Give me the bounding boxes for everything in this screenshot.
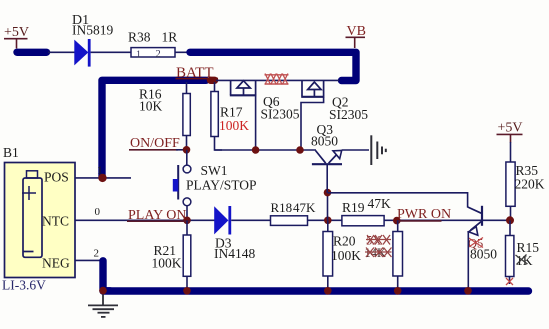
svg-text:2: 2	[94, 248, 100, 260]
node base link	[324, 189, 332, 197]
net label BATT	[176, 65, 219, 81]
resistor R38 1R	[128, 30, 177, 61]
net label PWR ON	[397, 207, 452, 222]
svg-text:NEG: NEG	[42, 256, 70, 271]
svg-text:PWR ON: PWR ON	[397, 207, 451, 222]
svg-text:IN4148: IN4148	[214, 246, 255, 261]
wire R38 to VB run	[175, 51, 192, 53]
mark red crossout top	[265, 74, 289, 85]
resistor R19	[342, 196, 391, 226]
wire R17 foot to Q3 collector	[215, 149, 317, 151]
svg-text:1: 1	[136, 50, 141, 61]
node BATT cap	[211, 77, 215, 84]
net label PLAY ON	[127, 208, 191, 223]
svg-text:47K: 47K	[368, 196, 392, 211]
wire Q5 emitter to rail	[467, 231, 469, 291]
wire D3 to R18	[231, 219, 270, 221]
svg-text:R18: R18	[271, 200, 293, 215]
diode D3	[214, 206, 255, 261]
svg-text:R38: R38	[128, 30, 151, 45]
resistor R20	[323, 220, 361, 291]
resistor R18	[271, 200, 317, 225]
wire thick +5V stub	[17, 49, 47, 56]
svg-text:+5V: +5V	[498, 121, 523, 136]
ground bottom	[88, 295, 118, 317]
node R35/R15/base	[506, 216, 514, 224]
resistor R16	[139, 82, 190, 150]
wire base row to Q5 collector	[328, 193, 468, 208]
wire Q3 base link vertical	[327, 193, 329, 221]
diode D1	[72, 13, 113, 67]
wire R18 to node	[308, 219, 343, 221]
power port VB	[346, 24, 366, 48]
node Q2 gate	[296, 146, 304, 154]
ground right of Q3	[371, 135, 386, 165]
svg-text:IN5819: IN5819	[72, 23, 113, 38]
node R20 rail	[324, 287, 332, 295]
node POS/BATT	[98, 174, 106, 182]
wire NTC / PLAY ON row	[75, 219, 215, 221]
pin 2 NEG line	[75, 259, 103, 261]
node Q6 gate	[252, 146, 260, 154]
svg-text:1R: 1R	[162, 30, 178, 45]
wire D1 anode	[48, 51, 75, 53]
svg-text:SW1: SW1	[201, 163, 228, 178]
mark red crossout R20 row	[365, 234, 392, 261]
wire thick VB top run	[190, 52, 356, 80]
svg-text:2: 2	[156, 49, 161, 60]
wire R19 to base row	[384, 219, 510, 221]
battery B1	[2, 145, 75, 293]
power port +5V left	[4, 25, 29, 49]
svg-text:SI2305: SI2305	[329, 107, 368, 122]
svg-text:PLAY/STOP: PLAY/STOP	[186, 178, 257, 193]
mark red crossout Q5	[468, 237, 483, 251]
wire thick BATT L (vertical + horizontal)	[102, 80, 206, 177]
resistor R21	[152, 220, 191, 291]
transistor Q5	[468, 206, 498, 262]
wire Q2 gate jog down	[301, 97, 324, 150]
power port +5V right	[497, 121, 523, 143]
svg-text:10K: 10K	[139, 99, 163, 114]
svg-text:LI-3.6V: LI-3.6V	[2, 278, 46, 293]
svg-text:100K: 100K	[219, 118, 249, 133]
wire BATT node to Q2/Q6 row	[216, 79, 339, 81]
svg-text:B1: B1	[3, 145, 19, 160]
svg-text:NTC: NTC	[42, 214, 69, 229]
wire thick NEG to rail	[103, 261, 110, 291]
node R21 rail	[183, 287, 191, 295]
transistor Q2	[301, 81, 368, 122]
node Q5 rail	[464, 287, 472, 295]
transistor Q3	[311, 122, 342, 193]
svg-text:POS: POS	[44, 170, 69, 185]
node R18/R19/R20	[324, 217, 332, 225]
wire Q6 gate down	[255, 95, 257, 150]
node NEG corner	[99, 287, 107, 295]
svg-text:SI2305: SI2305	[261, 107, 300, 122]
resistor R35	[506, 142, 545, 220]
node SW1/R21	[183, 217, 191, 225]
svg-text:220K: 220K	[515, 177, 545, 192]
wire ON/OFF to R16 foot	[176, 149, 187, 151]
svg-text:100K: 100K	[331, 248, 361, 263]
node R19/Rx	[393, 217, 401, 225]
transistor Q6	[230, 81, 300, 122]
wire D1 cathode to R38	[91, 51, 131, 53]
resistor crossed-out value	[393, 220, 403, 291]
svg-text:R19: R19	[342, 200, 365, 215]
wire Q3 emitter to ground	[342, 149, 369, 151]
net label ON/OFF	[129, 136, 180, 151]
svg-text:0: 0	[95, 206, 101, 218]
svg-text:R20: R20	[333, 234, 356, 249]
wire thick ground rail	[103, 287, 529, 294]
node Rx rail	[394, 287, 402, 295]
switch SW1	[173, 150, 257, 221]
resistor R17	[211, 82, 249, 150]
svg-text:8050: 8050	[311, 134, 338, 149]
svg-text:1K: 1K	[516, 253, 533, 268]
svg-text:47K: 47K	[293, 200, 316, 215]
svg-text:+5V: +5V	[4, 25, 29, 40]
svg-text:ON/OFF: ON/OFF	[130, 136, 180, 151]
node R16/SW1	[183, 146, 191, 154]
pin 1 POS line	[75, 177, 131, 179]
svg-text:100K: 100K	[152, 256, 182, 271]
resistor R15	[506, 220, 540, 285]
